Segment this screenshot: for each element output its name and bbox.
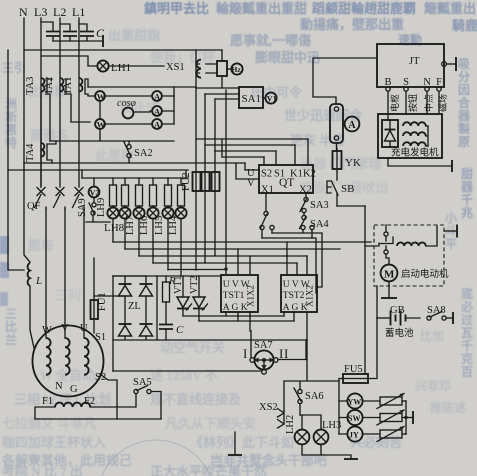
transformer TA2 (44, 77, 90, 122)
pin N (423, 77, 434, 112)
switch SA9 (77, 197, 110, 222)
transformer TA4 (25, 141, 56, 163)
plug of Hz meter (206, 50, 227, 88)
lamp LH3 (314, 420, 342, 444)
lamp LH5 (162, 207, 173, 218)
svg-text:V1: V1 (267, 95, 277, 104)
gauge YW (347, 393, 362, 408)
wire lamp drops to bundle (113, 219, 181, 276)
wire FU2 drops (196, 139, 215, 270)
wire SB bus right (337, 205, 365, 207)
svg-text:W: W (97, 120, 106, 130)
svg-text:JT: JT (409, 56, 420, 67)
wire mid vertical v205 (204, 94, 206, 145)
svg-text:JY: JY (349, 431, 359, 440)
svg-text:洲斯惠特: 洲斯惠特 (5, 97, 17, 150)
wire bundle y151 (215, 150, 276, 152)
lamp LH2 (285, 415, 309, 445)
capacitor C phase L2 (60, 24, 77, 41)
svg-text:A: A (154, 120, 161, 130)
svg-text:LH8: LH8 (104, 222, 125, 234)
transformer TA1 (63, 77, 95, 96)
ground starter top right (444, 225, 457, 238)
wire phase W down (45, 209, 47, 338)
wire QT top pins (264, 139, 308, 165)
wire QT left feeds (236, 163, 259, 179)
coil charging generator row1 (403, 122, 428, 126)
wire pin S down (405, 91, 407, 114)
lamp LH4 (175, 207, 186, 218)
wire TST2 top pins (287, 242, 307, 275)
wire SA1 feed lower (215, 98, 239, 100)
wire pin B down (387, 91, 389, 120)
resistor lamp R3 (136, 178, 143, 208)
capacitor C phase L1 (79, 24, 94, 41)
resistor R (163, 276, 177, 324)
fuse FU2 b (202, 172, 210, 191)
svg-text:FU2: FU2 (181, 172, 192, 191)
svg-text:SA9: SA9 (77, 198, 88, 217)
svg-text:W: W (42, 325, 52, 336)
svg-text:蹈顧甜輪趙甜鹿覇: 蹈顧甜輪趙甜鹿覇 (312, 1, 416, 16)
svg-text:比加: 比加 (420, 328, 444, 343)
svg-text:TST2: TST2 (283, 291, 305, 301)
node L1 label (72, 5, 85, 19)
sensor resistor JY (363, 426, 406, 442)
diode ZL top-left (119, 284, 132, 296)
wire top meter bus (88, 86, 196, 88)
wire SA6 feed (284, 340, 339, 411)
svg-text:愿每: 愿每 (28, 238, 54, 253)
node N label (19, 5, 28, 19)
svg-text:启动电动机: 启动电动机 (401, 268, 449, 280)
svg-text:甜器千兆: 甜器千兆 (460, 166, 474, 220)
wire SA7 right arm (278, 340, 306, 360)
svg-text:動揚痛，壁那出重: 動揚痛，壁那出重 (300, 17, 404, 32)
wire FU5 connections (339, 318, 377, 434)
svg-text:SA2: SA2 (134, 148, 153, 159)
svg-text:XS1: XS1 (166, 62, 185, 73)
lamp LH8b (119, 207, 130, 218)
svg-text:TA1: TA1 (63, 77, 74, 95)
thyristor VT1 (173, 276, 192, 316)
wire starter solenoid feed (365, 244, 379, 247)
svg-text:N: N (55, 381, 63, 392)
svg-text:SA5: SA5 (133, 377, 152, 388)
coil charging generator row3 (403, 142, 428, 146)
battery GB (377, 305, 420, 339)
transformer TA3 (25, 77, 52, 141)
svg-text:M: M (384, 269, 395, 281)
switch SA6 (294, 388, 324, 415)
lamp LH8a (107, 207, 118, 218)
lamp LH9 label (96, 198, 107, 217)
svg-text:SA3: SA3 (310, 200, 329, 211)
svg-text:L: L (35, 275, 42, 287)
svg-text:LH2: LH2 (285, 415, 296, 434)
svg-text:U: U (80, 323, 88, 334)
svg-text:咖四加球王杯状入: 咖四加球王杯状入 (2, 435, 106, 450)
sensor resistor SW (363, 410, 406, 426)
switch SA5 (133, 377, 161, 419)
svg-text:XS2: XS2 (259, 402, 278, 413)
thyristor VT2 (189, 276, 208, 321)
wire mid vertical v226 (224, 90, 227, 275)
node N G labels (55, 381, 78, 395)
fuse FU2 c (212, 172, 220, 191)
wire bottom field bus (35, 418, 161, 420)
wire ammeter bottom to YK (336, 143, 339, 151)
terminal JT right to ground (442, 57, 456, 71)
meter V2 (89, 178, 100, 198)
wire lamps to ground (302, 444, 358, 459)
svg-text:L2: L2 (53, 5, 66, 19)
wire bus y170 (8, 170, 188, 178)
diode ZL bottom-left (119, 324, 132, 336)
svg-text:推陈述: 推陈述 (430, 400, 466, 415)
faint stamp circle (97, 440, 215, 476)
generator box 充电发电机 (378, 114, 442, 159)
wire gate row y316 (183, 315, 284, 317)
wire L1 line (78, 18, 80, 187)
wire N line (23, 18, 25, 163)
svg-text:膨眼甜中迅: 膨眼甜中迅 (254, 50, 320, 65)
svg-text:A: A (154, 107, 161, 117)
winding U (80, 323, 89, 375)
switch SA2 (124, 141, 153, 163)
svg-text:YK: YK (345, 157, 361, 169)
value C label (96, 26, 105, 40)
svg-text:I: I (284, 346, 288, 361)
svg-text:兴非邓: 兴非邓 (415, 378, 451, 393)
breaker QF (27, 188, 84, 213)
svg-text:TST1: TST1 (223, 291, 245, 301)
label LH4 (168, 215, 179, 235)
fuse FU2 label (181, 172, 192, 191)
socket XS1 (166, 60, 201, 78)
svg-text:SA7: SA7 (254, 340, 273, 351)
winding V (61, 323, 70, 375)
node U label at QT (247, 168, 255, 179)
svg-text:SA6: SA6 (305, 391, 324, 402)
wire y233 to TST2 X pin (272, 233, 322, 287)
socket XS2 (259, 402, 284, 428)
lamp LH6 (147, 207, 158, 218)
svg-text:W 全自动: W 全自动 (40, 368, 95, 383)
label LH6 (139, 216, 150, 235)
svg-text:LH5: LH5 (154, 216, 165, 235)
meter cos-phi (117, 98, 136, 118)
svg-text:I: I (243, 346, 247, 361)
gauge JY (347, 426, 362, 441)
wire bundle y157 (222, 139, 264, 157)
gauge SW (347, 410, 362, 425)
svg-text:I: I (279, 346, 283, 361)
svg-text:LH4: LH4 (168, 215, 179, 235)
controller box QT (259, 165, 316, 196)
svg-text:輪簸瓤重出重甜: 輪簸瓤重出重甜 (216, 1, 307, 16)
svg-text:S2: S2 (261, 169, 272, 180)
wire pin F down (438, 91, 440, 114)
wire bundle y145 (205, 144, 295, 146)
button SB (327, 172, 354, 206)
wire mid vertical v196 (195, 50, 197, 139)
meter W lower (95, 119, 106, 129)
capacitor C phase L3 (41, 22, 60, 41)
meter A1 (152, 91, 162, 101)
wire bundle h6 (168, 269, 226, 271)
wire bundle h5 (153, 262, 297, 264)
switch SA4 (300, 213, 330, 238)
generator stator circle (33, 326, 104, 397)
svg-text:按钮: 按钮 (407, 94, 418, 112)
svg-text:LH1: LH1 (111, 62, 131, 74)
svg-text:ZL: ZL (128, 301, 141, 312)
svg-text:《林列》此下斗如: 《林列》此下斗如 (190, 435, 294, 450)
pin F (436, 77, 448, 112)
svg-text:L3: L3 (34, 5, 47, 19)
wire battery left drop (376, 286, 378, 318)
sensor resistor YW (363, 393, 406, 409)
svg-text:A: A (348, 120, 356, 131)
svg-text:规不直线连接及: 规不直线连接及 (150, 392, 242, 407)
svg-text:W: W (97, 92, 106, 102)
solenoid contact upper (379, 225, 393, 244)
wire meter row W2-A3 (105, 123, 174, 125)
wire bus y141 (50, 140, 174, 142)
starter dashed enclosure (374, 225, 444, 286)
pin B (384, 77, 400, 112)
wire phase U down (83, 209, 85, 338)
wire gate row y321 (199, 320, 294, 322)
wire pin N down (426, 91, 428, 114)
module TST1 (221, 275, 258, 313)
svg-text:YW: YW (348, 398, 362, 407)
meter V1 (263, 92, 277, 103)
wire SA1 feed upper (196, 87, 239, 89)
label LH5 (154, 216, 165, 235)
wire lamp panel feed (81, 170, 83, 178)
meter A3 (152, 119, 162, 129)
fuse FU5 (343, 364, 368, 383)
meter A2 (152, 106, 162, 116)
svg-text:三利: 三利 (55, 288, 81, 303)
switch SA8 (427, 305, 453, 324)
resistor lamp R1 (110, 178, 117, 208)
svg-text:SB: SB (341, 183, 354, 195)
label LH7 (125, 216, 136, 235)
wire ZL outer left (112, 276, 114, 371)
svg-text:G: G (70, 384, 78, 395)
svg-text:C: C (176, 324, 184, 336)
wire L3 line (40, 18, 42, 187)
motor M starter (381, 265, 449, 282)
label LH8 (104, 222, 125, 234)
wire meter right vertical (173, 87, 175, 124)
wire SA7 left arm (250, 331, 252, 358)
svg-text:蓄电池: 蓄电池 (385, 327, 414, 339)
wire left return line (8, 50, 24, 270)
svg-text:三引: 三引 (2, 61, 26, 75)
svg-text:LH9: LH9 (96, 198, 107, 217)
svg-text:Hz: Hz (232, 65, 242, 74)
wire bundle h4 (139, 255, 307, 257)
field coil F1 F2 (35, 394, 136, 419)
brush S1 (95, 332, 106, 343)
svg-text:SW: SW (348, 414, 360, 423)
resistor lamp R5 (165, 178, 172, 208)
svg-text:述 1250V 不: 述 1250V 不 (150, 368, 218, 383)
meter Hz (227, 63, 243, 74)
wire bundle h2 (113, 241, 371, 243)
svg-text:鎮明甲去比: 鎮明甲去比 (144, 1, 209, 16)
svg-text:凡久从下顺头安: 凡久从下顺头安 (165, 416, 256, 431)
wire y238 to TST2 X pin (262, 238, 317, 293)
svg-text:考院 N 比 7 出: 考院 N 比 7 出 (2, 464, 83, 476)
rectifier ZL label (128, 301, 141, 312)
node L2 label (53, 5, 66, 19)
lamp LH1 (97, 60, 131, 74)
wire sensors common to ground (404, 401, 413, 434)
svg-text:N: N (19, 5, 28, 19)
module TST2 (281, 275, 317, 313)
wire bus y276 (113, 275, 221, 277)
svg-text:TA2: TA2 (44, 77, 55, 95)
svg-text:中点: 中点 (423, 94, 434, 112)
node V label at QT (247, 178, 255, 189)
svg-text:LH6: LH6 (139, 216, 150, 235)
wire L3 between TA sections (40, 92, 42, 187)
wire meter row cos-A2 (133, 111, 174, 112)
svg-text:QF: QF (27, 201, 41, 212)
svg-text:底必过瓦千克百: 底必过瓦千克百 (460, 286, 473, 379)
wire SA1 feed mid (205, 93, 239, 95)
svg-text:愿事就,一嘟傷: 愿事就,一嘟傷 (230, 33, 311, 48)
wire lamp row feed (300, 415, 321, 430)
diode ZL bottom-right (140, 324, 153, 336)
wire charging box to ground (388, 158, 452, 172)
wire ZL ac tap (94, 295, 125, 297)
svg-text:L1: L1 (72, 5, 85, 19)
wire TST1 top pins (238, 249, 250, 275)
wire JT coil feed from ammeter (313, 58, 377, 104)
fuse FU2 a (193, 172, 201, 191)
ammeter assembly box (330, 104, 343, 143)
wire bundle h3 (125, 248, 340, 250)
svg-text:TA4: TA4 (25, 143, 36, 162)
wire L3 branch to LH1 (41, 56, 97, 66)
meter A charging (343, 117, 359, 132)
svg-text:簸瓤重出: 簸瓤重出 (423, 1, 476, 16)
switch SA3 (300, 193, 329, 213)
ground under motor (381, 281, 397, 298)
svg-text:A G K: A G K (283, 303, 308, 313)
rectifier ZL rails (113, 276, 307, 340)
diode inside charging generator (382, 120, 398, 147)
svg-text:充电发电机: 充电发电机 (391, 147, 439, 159)
diode ZL top-right (140, 284, 153, 296)
wire ZL dc to SA7 (113, 370, 261, 372)
ground bottom left stub (228, 432, 242, 455)
solenoid contact lower (384, 246, 389, 265)
wire phase V down (64, 209, 66, 338)
wire TST1 bottom pins (226, 312, 251, 331)
capacitor C filter (159, 324, 184, 340)
svg-text:V: V (61, 323, 69, 334)
wire main bus y163 (24, 162, 245, 164)
svg-text:动空气开关: 动空气开关 (160, 340, 225, 355)
wire long vertical v365 (365, 206, 368, 374)
coil charging generator row2 (403, 126, 428, 146)
svg-text:三比兰: 三比兰 (5, 307, 17, 347)
svg-text:七拉侧又 斗非凡: 七拉侧又 斗非凡 (2, 416, 96, 431)
svg-text:V2: V2 (90, 189, 100, 198)
wire LH1 to XS1 (109, 65, 164, 67)
wire L2 line (59, 18, 61, 187)
svg-text:电枢: 电枢 (389, 94, 400, 112)
svg-text:F1: F1 (42, 396, 53, 407)
solenoid coil (397, 226, 437, 246)
resistor lamp R2 (122, 178, 129, 208)
svg-text:A: A (154, 92, 161, 102)
wire meter row W1-A1 (105, 95, 174, 97)
relay box JT (377, 44, 444, 87)
wire bundle y139 (196, 138, 308, 140)
svg-text:X1: X1 (261, 185, 274, 196)
svg-text:正大水平吹芒果干然: 正大水平吹芒果干然 (150, 464, 267, 476)
wire gauge left stubs (339, 401, 347, 434)
lamp LH7 (133, 207, 144, 218)
fuse FU1 (91, 258, 109, 333)
switch under X1 (260, 193, 274, 238)
wire capacitor common to terminator (53, 35, 103, 47)
svg-text:出重甜詣: 出重甜詣 (108, 28, 160, 43)
wire N top bus (24, 49, 222, 51)
selector SA7 (243, 340, 288, 374)
svg-text:TA3: TA3 (25, 77, 36, 95)
relay YK (333, 148, 361, 172)
brush S2 (95, 372, 117, 419)
svg-text:SA4: SA4 (310, 219, 329, 230)
wire lamp panel top bus (82, 177, 188, 179)
wire dc bus drop (156, 276, 158, 340)
resistor lamp R4 (150, 178, 157, 208)
svg-text:騎鹿: 騎鹿 (452, 18, 477, 33)
switch box SA1 (239, 87, 263, 108)
node L3 label (34, 5, 47, 19)
svg-text:GB: GB (390, 305, 405, 316)
meter W upper (95, 91, 106, 101)
wire W1-W2 link and drop (99, 101, 101, 141)
svg-text:LH7: LH7 (125, 216, 136, 235)
resistor lamp R6 (178, 178, 185, 208)
inductor L (24, 163, 42, 348)
svg-text:K2: K2 (303, 169, 316, 180)
svg-text:SA1: SA1 (242, 93, 262, 105)
winding W (42, 325, 52, 375)
pin S (403, 77, 418, 112)
wire TST2 bottom pins (284, 312, 307, 340)
svg-text:S1: S1 (95, 332, 106, 343)
svg-text:吸分因合器製原: 吸分因合器製原 (457, 57, 471, 149)
svg-text:LH3: LH3 (322, 420, 341, 431)
svg-text:QT: QT (279, 177, 294, 189)
wire mid vertical v215 (214, 99, 216, 151)
